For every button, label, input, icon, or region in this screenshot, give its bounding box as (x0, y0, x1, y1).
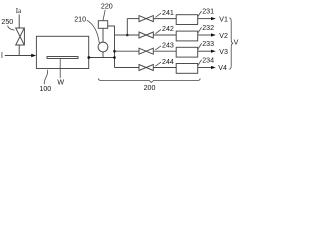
leader W (59, 59, 61, 79)
svg-text:W: W (57, 78, 64, 86)
svg-text:234: 234 (202, 57, 214, 65)
svg-text:Ia: Ia (16, 7, 22, 15)
brace 200 (98, 78, 200, 82)
svg-text:V1: V1 (219, 16, 228, 24)
leader 241 (155, 13, 161, 17)
leader 232 (198, 27, 202, 33)
leader 100 (44, 70, 48, 85)
row 2: wire to valve 242 (115, 34, 140, 36)
junction exhaust tee (113, 56, 116, 59)
valve 241 (139, 16, 153, 22)
valve 244 (139, 65, 153, 71)
svg-text:I: I (1, 52, 4, 60)
wire manifold (126, 19, 128, 35)
wire arrow V4 (198, 67, 212, 69)
gas source 234 (176, 64, 198, 74)
wire 220 right jog (108, 26, 115, 35)
svg-text:V2: V2 (219, 32, 228, 40)
leader 243 (155, 46, 161, 50)
svg-text:242: 242 (162, 25, 174, 33)
leader 220 (103, 10, 105, 21)
svg-text:100: 100 (39, 85, 51, 93)
row 4: wire to valve 244 (115, 67, 140, 69)
gas source 233 (176, 47, 198, 57)
wire valve 242 to 232 (153, 34, 176, 36)
wire circle stem (102, 52, 104, 58)
svg-text:244: 244 (162, 58, 174, 66)
junction row3 (113, 50, 116, 53)
svg-text:220: 220 (101, 2, 113, 10)
wire valve 241 to 231 (153, 18, 176, 20)
gas source 232 (176, 31, 198, 41)
leader 250 (8, 26, 15, 31)
svg-text:232: 232 (202, 24, 214, 32)
leader 231 (198, 11, 202, 17)
svg-text:V: V (234, 39, 239, 47)
wire chamber exhaust (89, 57, 115, 59)
wafer W (47, 57, 78, 59)
wire 220 to pump 210 (102, 28, 104, 42)
wire valve 244 to 234 (153, 67, 176, 69)
svg-text:V3: V3 (219, 48, 228, 56)
leader 210 (87, 20, 100, 43)
svg-text:250: 250 (1, 18, 13, 26)
wire valve 243 to 233 (153, 50, 176, 52)
svg-text:233: 233 (202, 40, 214, 48)
wire I inlet (5, 55, 32, 57)
svg-text:200: 200 (144, 84, 156, 92)
controller 220 (98, 21, 107, 29)
leader 242 (155, 30, 161, 34)
row 3: wire to valve 243 (115, 50, 140, 52)
svg-text:241: 241 (162, 9, 174, 17)
wire valve 250 to I line (18, 45, 20, 56)
wire Ia down to valve 250 (18, 15, 20, 29)
wire supply vertical (114, 35, 116, 68)
brace V (229, 18, 233, 69)
junction chamber wall (87, 56, 90, 59)
gas source 231 (176, 15, 198, 25)
pump 210 (98, 42, 108, 52)
svg-text:V4: V4 (218, 64, 227, 72)
chamber 100 (36, 36, 88, 68)
leader 244 (155, 62, 161, 66)
junction manifold row2 (126, 34, 129, 37)
svg-text:243: 243 (162, 42, 174, 50)
row 1: wire manifold to valve 241 (127, 18, 139, 20)
svg-text:210: 210 (74, 15, 86, 23)
leader 233 (198, 43, 202, 49)
leader 234 (198, 60, 202, 66)
valve 242 (139, 32, 153, 38)
arrow into chamber (31, 54, 36, 58)
wire arrow V1 (198, 18, 212, 20)
wire arrow V2 (198, 34, 212, 36)
wire arrow V3 (198, 50, 212, 52)
valve 243 (139, 48, 153, 54)
svg-text:231: 231 (202, 8, 214, 16)
valve 250 (16, 28, 25, 45)
